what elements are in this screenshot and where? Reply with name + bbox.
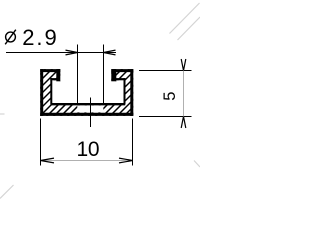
left edge tick: [0, 113, 5, 115]
open arrow at right end: [119, 158, 133, 163]
cavity: left wall inner face: [50, 78, 52, 104]
unhatched hole strip in web: [77, 105, 103, 112]
bottom-right diagonal: [194, 161, 200, 168]
hatching of section (45 deg): [0, 60, 187, 120]
dimension line (gray): [183, 71, 185, 117]
open arrow above, pointing down: [181, 59, 186, 71]
cavity floor (web top): [51, 103, 126, 105]
svg-text:5: 5: [161, 92, 179, 101]
svg-text:10: 10: [77, 138, 100, 161]
right extension line: [132, 119, 134, 166]
hole centerline: [90, 98, 92, 128]
profile outline: [40, 69, 133, 116]
top-right diagonal 1: [170, 3, 200, 34]
right flange underside: [116, 78, 126, 80]
top face over left flange: [40, 69, 60, 72]
outer right wall face: [130, 69, 133, 116]
faint sheet artifacts from the larger drawing (cropped at edges): [0, 3, 200, 199]
top face over right flange: [111, 69, 133, 72]
extension line, hole right edge: [103, 45, 105, 104]
open arrow at left end: [41, 158, 55, 163]
right lip tab: [111, 69, 116, 81]
top extension line: [139, 70, 192, 72]
svg-text:2.9: 2.9: [22, 25, 58, 50]
cavity: right wall inner face: [124, 78, 126, 104]
dimension line (gray): [41, 160, 133, 162]
extension line, hole left edge: [77, 45, 79, 104]
open arrow below, pointing up: [181, 117, 186, 129]
open arrow pointing right, tip at hole left edge: [66, 50, 78, 55]
left flange underside: [50, 78, 57, 80]
left extension line: [40, 119, 42, 166]
bottom extension line: [139, 116, 192, 118]
top-right diagonal 2: [178, 17, 201, 40]
dim line: [6, 52, 116, 54]
bottom face: [40, 113, 133, 116]
dimension Ø 2.9 : diameter symbol: [6, 32, 16, 42]
left lip tab: [56, 69, 60, 81]
outer left wall face: [40, 69, 43, 116]
open arrow pointing left, tip at hole right edge: [104, 50, 116, 55]
bottom-left diagonal: [0, 185, 14, 199]
